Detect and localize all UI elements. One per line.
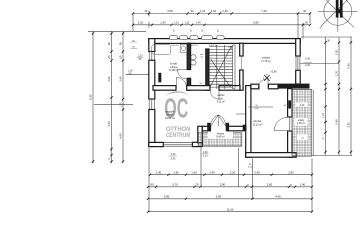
bathtub — [152, 45, 171, 55]
door top szoba — [258, 79, 268, 89]
dim labels top row A — [138, 9, 309, 211]
svg-text:2,40: 2,40 — [171, 158, 176, 161]
svg-text:1,40: 1,40 — [160, 21, 166, 25]
bottom-left exterior wall seg 1 — [149, 142, 164, 146]
bottom dim row 3 — [148, 198, 312, 200]
right dim col 2 — [338, 37, 340, 156]
svg-text:90: 90 — [107, 42, 111, 46]
north symbol circle — [318, 0, 358, 32]
bottom dim row 2 — [148, 186, 312, 188]
svg-text:2,10: 2,10 — [203, 155, 208, 158]
svg-text:5,11 m²: 5,11 m² — [217, 100, 225, 103]
svg-text:4,45: 4,45 — [275, 195, 281, 199]
left wall window 2 — [149, 99, 155, 110]
svg-text:12,15 m²: 12,15 m² — [253, 123, 263, 126]
wc bowl — [191, 55, 196, 60]
north symbol crosshair — [318, 0, 358, 32]
svg-text:5,40: 5,40 — [347, 63, 351, 69]
door entrance double-leaf arch — [211, 115, 226, 126]
svg-text:2,40: 2,40 — [305, 64, 310, 67]
svg-text:3,40: 3,40 — [119, 76, 123, 82]
ceiling lamp X symbol in szoba — [263, 74, 271, 81]
svg-text:2,10: 2,10 — [138, 21, 144, 25]
left exterior wall seg 1 — [149, 39, 155, 52]
svg-text:1,45: 1,45 — [209, 170, 215, 174]
dim labels left cols rotated — [89, 40, 351, 161]
svg-text:1,10: 1,10 — [200, 9, 206, 13]
svg-text:8,40 m²: 8,40 m² — [216, 136, 224, 139]
stair treads — [209, 47, 233, 88]
svg-text:6,60: 6,60 — [253, 21, 259, 25]
tick marks bottom row 3 — [147, 198, 313, 200]
terrace right strip — [292, 90, 313, 157]
left top connector — [88, 30, 146, 32]
svg-text:5,70: 5,70 — [172, 183, 178, 187]
svg-text:65: 65 — [119, 55, 123, 59]
svg-text:17,75 m²: 17,75 m² — [261, 60, 271, 63]
door bath (wall x187) — [178, 70, 188, 80]
right dim col 1 — [325, 37, 327, 156]
svg-text:4,05 m²: 4,05 m² — [297, 122, 305, 125]
szoba top bottom-wall seg right — [268, 84, 278, 89]
tick marks bottom row 1 — [149, 174, 313, 176]
interior wall bath/wc vertical — [187, 43, 190, 69]
szoba lower right wall seg 2 — [288, 131, 292, 157]
svg-text:1,40: 1,40 — [300, 105, 305, 107]
svg-text:3,80: 3,80 — [220, 183, 226, 187]
svg-text:90/1,50: 90/1,50 — [191, 45, 199, 47]
terrace bottom centre — [198, 133, 242, 146]
door nappali-bath corridor — [176, 77, 186, 88]
svg-text:2,40: 2,40 — [305, 57, 310, 60]
right exterior wall upper seg 1 — [296, 39, 301, 56]
stair flight edge lines — [217, 45, 225, 89]
left dim col 2 — [111, 31, 113, 163]
door stairs to elotér — [210, 90, 219, 99]
entrance jamb blocks — [207, 123, 210, 131]
left exterior wall seg 2 — [149, 60, 155, 99]
threshold line vestibule — [236, 113, 246, 115]
svg-text:1,90: 1,90 — [191, 170, 197, 174]
witness line left of top rows — [133, 11, 149, 32]
svg-text:8,35: 8,35 — [89, 94, 93, 100]
black wall bar right (terrace top) — [278, 84, 310, 89]
dim row B line — [133, 24, 310, 26]
svg-text:1,20/1,50: 1,20/1,50 — [209, 45, 219, 47]
svg-text:11,88 m²: 11,88 m² — [169, 69, 178, 72]
svg-text:3,50: 3,50 — [335, 49, 339, 55]
bottom wall of lower szoba — [246, 153, 297, 158]
bottom dim row 1 — [150, 174, 312, 176]
door lower szoba to terrace — [274, 117, 287, 130]
svg-text:5,40: 5,40 — [335, 119, 339, 125]
left window leader — [94, 75, 149, 105]
top exterior wall — [149, 39, 300, 44]
svg-text:2,85: 2,85 — [164, 195, 170, 199]
stairwell right wall — [240, 43, 243, 56]
vestibule front wall right of door — [227, 126, 246, 131]
svg-text:2,40: 2,40 — [156, 170, 162, 174]
szoba lower door to terrace — [288, 117, 292, 131]
svg-text:90/1,50: 90/1,50 — [172, 45, 180, 47]
stair walk line — [211, 46, 232, 86]
left dim col 3 — [122, 31, 124, 163]
tick marks top row A — [92, 12, 352, 213]
svg-text:70: 70 — [195, 183, 199, 187]
svg-text:1,95: 1,95 — [173, 170, 179, 174]
bottom wall window (nappali terrace door) — [163, 143, 192, 147]
svg-text:szoba: szoba — [253, 119, 261, 123]
interior wall wc/stairs vertical — [206, 49, 209, 90]
svg-text:1,15: 1,15 — [322, 113, 325, 118]
svg-text:11,60: 11,60 — [227, 207, 234, 211]
tick marks bottom row 2 — [147, 186, 313, 188]
svg-text:+2,86: +2,86 — [270, 70, 277, 73]
watermark swoosh — [165, 91, 189, 95]
svg-text:90: 90 — [150, 183, 154, 187]
top wall window boxes — [170, 36, 225, 40]
svg-text:1,10: 1,10 — [184, 22, 189, 25]
stair walk line lower diagonal — [211, 59, 231, 87]
svg-text:1,40: 1,40 — [222, 9, 228, 13]
svg-text:1,00: 1,00 — [203, 151, 208, 154]
svg-text:4,60: 4,60 — [119, 133, 123, 139]
svg-text:1,05: 1,05 — [121, 102, 123, 107]
svg-text:szoba: szoba — [262, 55, 270, 59]
dim row A line — [133, 13, 310, 15]
black door jamb at entrance — [243, 125, 247, 131]
right exterior wall upper seg 2 — [296, 70, 301, 84]
bidet — [191, 60, 196, 65]
svg-text:CENTRUM: CENTRUM — [166, 132, 191, 139]
svg-text:65: 65 — [107, 55, 111, 59]
witness lines right top — [298, 14, 310, 39]
svg-text:2,40: 2,40 — [254, 170, 260, 174]
svg-text:3,30: 3,30 — [347, 122, 351, 128]
north needle bars — [336, 0, 339, 18]
svg-text:1,10: 1,10 — [211, 9, 217, 13]
bottom-left exterior wall seg 2 — [192, 142, 202, 146]
bottom witness lines — [149, 148, 312, 213]
svg-text:7,20: 7,20 — [261, 9, 267, 13]
vestibule front wall left of door — [202, 126, 210, 131]
interior wall horizontal (bath row) seg 2 — [187, 86, 210, 91]
svg-text:30: 30 — [303, 9, 307, 13]
right top connector — [301, 36, 352, 38]
interior wall horizontal (bath row) seg 1 — [153, 86, 176, 91]
svg-text:3,55: 3,55 — [167, 9, 173, 13]
right dim col 3 — [350, 37, 352, 156]
szoba lower right wall seg 1 — [288, 89, 292, 117]
svg-text:3,60: 3,60 — [107, 76, 111, 82]
svg-text:5,00: 5,00 — [216, 195, 222, 199]
svg-text:1,10: 1,10 — [174, 22, 179, 25]
svg-text:90: 90 — [119, 42, 123, 46]
north symbol diagonals — [320, 0, 354, 28]
washbasin bath — [180, 44, 187, 52]
tick marks top row B — [132, 24, 311, 26]
svg-text:2,20: 2,20 — [230, 170, 236, 174]
svg-text:4,20: 4,20 — [107, 121, 111, 127]
szoba top bottom-wall seg left — [251, 84, 259, 89]
right wall window (szoba top) — [296, 56, 301, 70]
tick marks right cols — [324, 41, 326, 153]
left wall window 1 — [149, 52, 155, 61]
right bottom connector — [312, 155, 352, 157]
bottom dim row 4 — [148, 211, 312, 213]
label background patches on hatch — [296, 103, 308, 107]
right window leader — [300, 63, 340, 65]
black wall nub szoba doorway — [288, 100, 291, 108]
door lower szoba top thin line — [249, 106, 274, 108]
stair rail double line — [233, 45, 235, 89]
vestibule step wall vertical — [198, 126, 203, 143]
left dim col 1 — [92, 31, 94, 163]
svg-text:24,59 m²: 24,59 m² — [165, 116, 175, 120]
black chimney block in nappali — [158, 73, 161, 83]
tick marks bottom row 4 — [147, 211, 313, 213]
szoba left wall lower — [246, 86, 251, 158]
svg-text:1,40: 1,40 — [300, 183, 306, 187]
svg-text:2,50: 2,50 — [288, 170, 294, 174]
tick marks left cols — [92, 32, 94, 162]
svg-text:1,70: 1,70 — [335, 70, 339, 76]
svg-text:2,60: 2,60 — [267, 183, 273, 187]
svg-text:2,40: 2,40 — [171, 153, 176, 156]
left exterior wall seg 3 — [149, 110, 155, 147]
svg-text:1,44: 1,44 — [196, 22, 201, 25]
svg-text:1,20: 1,20 — [138, 54, 143, 57]
